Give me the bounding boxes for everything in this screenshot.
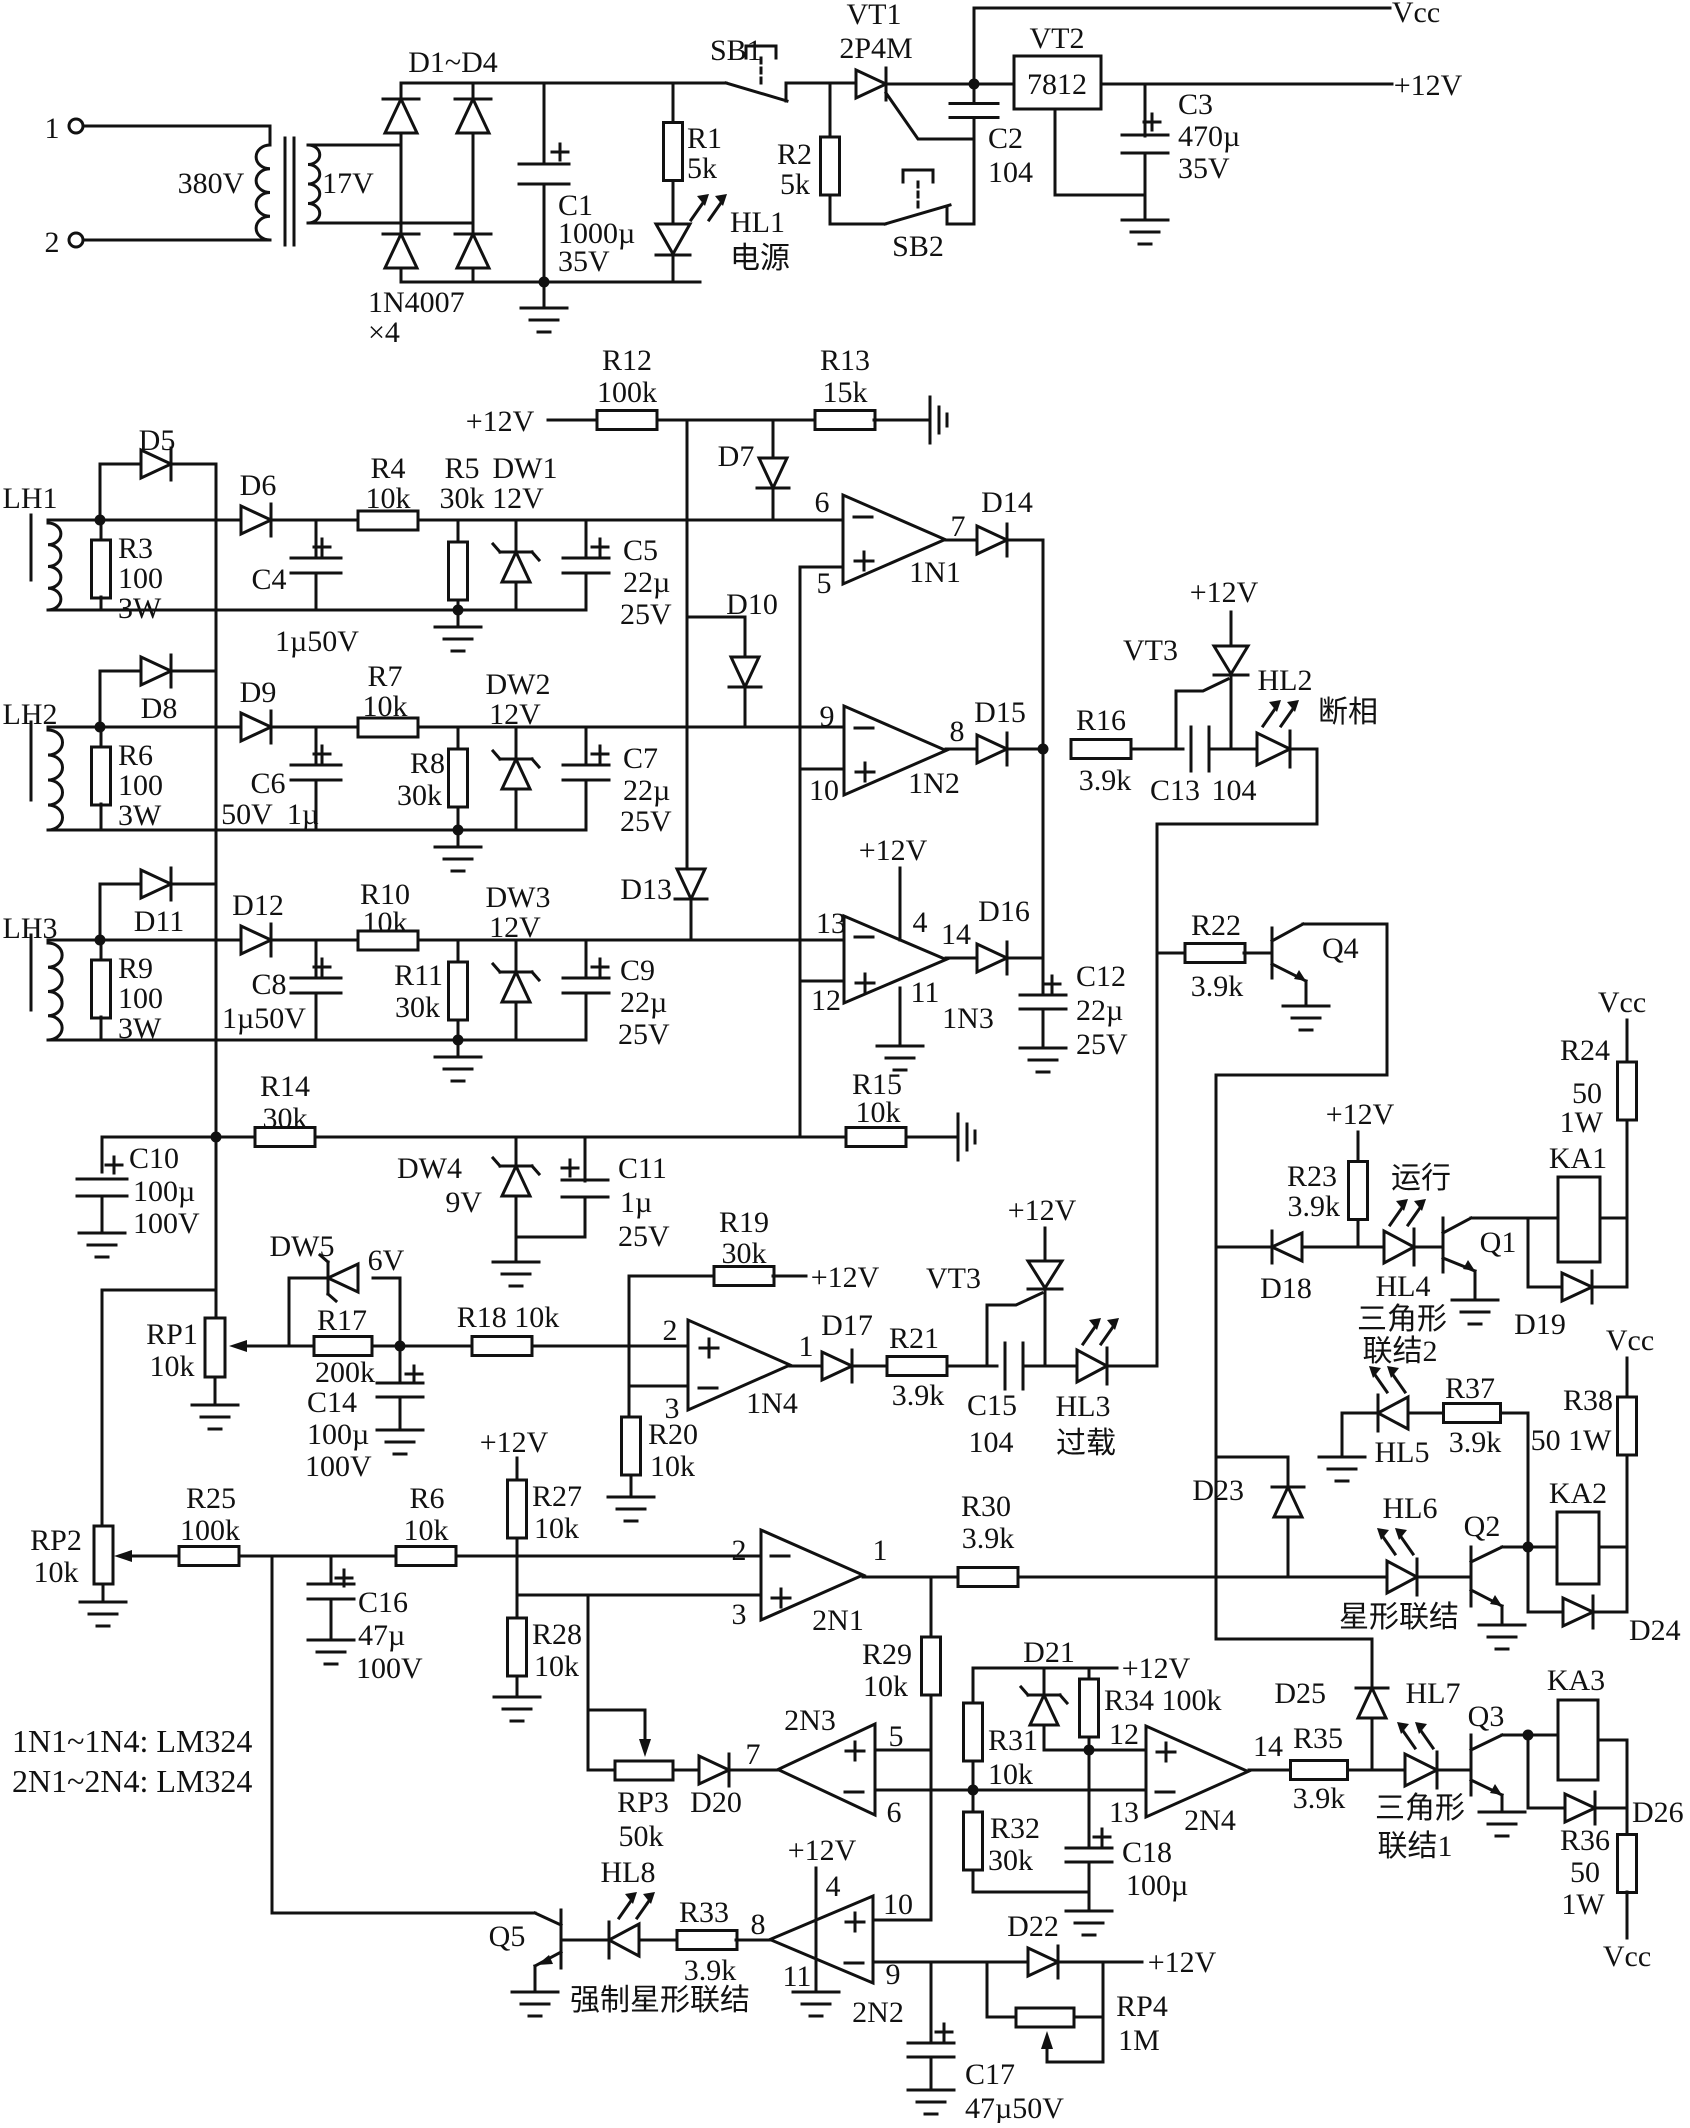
capacitor C7 22u xyxy=(563,765,609,780)
svg-text:SB1: SB1 xyxy=(710,34,762,67)
svg-text:6: 6 xyxy=(815,486,830,519)
ground HL5 xyxy=(1319,1457,1365,1481)
svg-text:1N4: 1N4 xyxy=(746,1387,798,1420)
wire Vcc rail xyxy=(974,7,1390,10)
svg-text:三角形: 三角形 xyxy=(1375,1792,1465,1825)
svg-text:断相: 断相 xyxy=(1318,696,1378,729)
capacitor C6 xyxy=(291,765,341,780)
wire to R22 xyxy=(1157,952,1186,955)
wire RP3 left xyxy=(588,1769,615,1772)
svg-text:LH1: LH1 xyxy=(3,482,58,515)
svg-text:R32: R32 xyxy=(990,1812,1040,1845)
svg-text:104: 104 xyxy=(969,1426,1014,1459)
op-amp 1N3 xyxy=(844,916,946,1003)
junction KA2 xyxy=(1523,1542,1534,1553)
wire R25 node down xyxy=(271,1556,274,1913)
plus C16 xyxy=(336,1570,352,1586)
wire Vcc to R24 xyxy=(1626,1020,1629,1062)
svg-text:C2: C2 xyxy=(988,122,1023,155)
wire LH2 top xyxy=(48,727,100,730)
wire R18 to 1N4 xyxy=(532,1345,688,1348)
svg-text:5: 5 xyxy=(889,1720,904,1753)
capacitor C11 1u xyxy=(562,1180,608,1197)
wire D15 to bus xyxy=(1007,748,1043,751)
svg-text:D7: D7 xyxy=(718,440,755,473)
transistor Q3 xyxy=(1471,1735,1502,1795)
wire C12 bottom xyxy=(1042,1009,1045,1048)
svg-text:12V: 12V xyxy=(489,911,541,944)
wire DW2 top xyxy=(515,727,518,759)
wire R23 bottom xyxy=(1357,1220,1360,1247)
node channel 3 input xyxy=(95,935,106,946)
wire to ground ch3 xyxy=(457,1040,460,1057)
terminal 2 xyxy=(69,233,83,247)
wire D13 bottom xyxy=(690,899,693,940)
diode D17 xyxy=(822,1350,852,1382)
resistor R21 xyxy=(887,1357,947,1376)
wire pin5 input xyxy=(800,566,843,569)
potentiometer RP3 xyxy=(615,1761,673,1780)
diode D20 xyxy=(699,1754,729,1786)
svg-text:R23: R23 xyxy=(1287,1160,1337,1193)
wire C1 bottom xyxy=(543,185,546,282)
svg-text:C14: C14 xyxy=(307,1386,357,1419)
wire R28 bottom xyxy=(516,1676,519,1697)
plus C11 xyxy=(562,1160,578,1176)
svg-text:+12V: +12V xyxy=(811,1261,880,1294)
svg-text:VT2: VT2 xyxy=(1030,22,1085,55)
wire 1N2 out xyxy=(946,748,977,751)
thyristor VT3 (overload) xyxy=(1028,1261,1062,1289)
svg-text:D10: D10 xyxy=(726,588,778,621)
wire C7 top xyxy=(585,727,588,765)
wire Q1 collector xyxy=(1471,1217,1558,1220)
wire C16 bottom xyxy=(330,1599,333,1640)
junction KA3 xyxy=(1523,1730,1534,1741)
transistor Q4 xyxy=(1272,924,1306,981)
wire +12V to R27 xyxy=(516,1458,519,1480)
wire pin6 row xyxy=(875,1789,1146,1792)
svg-text:R24: R24 xyxy=(1560,1034,1610,1067)
wire 7812 gnd xyxy=(1055,109,1145,195)
terminal 1 xyxy=(69,119,83,133)
LED HL6 xyxy=(1387,1559,1417,1595)
wire VT3 cathode xyxy=(1230,675,1233,749)
resistor R1 xyxy=(664,123,683,181)
rays HL5 xyxy=(1369,1366,1405,1392)
svg-text:R25: R25 xyxy=(186,1482,236,1515)
svg-text:+12V: +12V xyxy=(859,834,928,867)
wire HL4 to Q1 xyxy=(1414,1246,1443,1249)
capacitor C12 22u xyxy=(1020,995,1066,1009)
wire VT3 gate xyxy=(1176,679,1228,749)
LED HL3 xyxy=(1077,1348,1107,1384)
svg-text:D19: D19 xyxy=(1514,1308,1566,1341)
svg-text:100V: 100V xyxy=(305,1450,372,1483)
ground C12 xyxy=(1020,1048,1066,1072)
wire DW4-C11 xyxy=(516,1236,585,1239)
wire terminal1 to primary xyxy=(83,126,270,145)
svg-text:15k: 15k xyxy=(823,376,868,409)
svg-text:电源: 电源 xyxy=(730,242,790,275)
node channel 3 divider xyxy=(453,1035,464,1046)
ground R28 xyxy=(494,1697,540,1721)
svg-text:13: 13 xyxy=(816,907,846,940)
diode D14 xyxy=(977,524,1007,556)
wire pin12 row xyxy=(1044,1749,1146,1752)
rays HL6 xyxy=(1377,1528,1413,1554)
resistor R35 xyxy=(1291,1761,1348,1780)
svg-text:C18: C18 xyxy=(1122,1836,1172,1869)
current transformer LH1 winding xyxy=(30,515,33,580)
wire RP4 wiper return xyxy=(1047,1962,1103,2062)
svg-text:+12V: +12V xyxy=(1148,1946,1217,1979)
svg-text:1µ: 1µ xyxy=(620,1186,652,1219)
diode D15 xyxy=(977,733,1007,765)
wire pin3 node to RP3 xyxy=(587,1595,590,1770)
svg-text:6V: 6V xyxy=(368,1244,405,1277)
capacitor C5 22u xyxy=(563,558,609,573)
diode D7 xyxy=(757,458,789,488)
svg-text:HL3: HL3 xyxy=(1056,1390,1111,1423)
capacitor C14 100u xyxy=(377,1383,423,1397)
wire C13 to HL2 xyxy=(1209,748,1257,751)
svg-text:C3: C3 xyxy=(1178,88,1213,121)
svg-text:D24: D24 xyxy=(1629,1614,1681,1647)
svg-text:KA3: KA3 xyxy=(1547,1664,1605,1697)
wire D18 to HL4 xyxy=(1302,1246,1384,1249)
svg-text:35V: 35V xyxy=(558,245,610,278)
svg-text:联结1: 联结1 xyxy=(1378,1830,1453,1863)
svg-text:1: 1 xyxy=(873,1534,888,1567)
svg-text:C12: C12 xyxy=(1076,960,1126,993)
plus C14 xyxy=(406,1366,422,1382)
ground C14 xyxy=(377,1430,423,1454)
wire R29 to pin10 xyxy=(930,1697,933,1920)
RP4 wiper arrow xyxy=(1041,2031,1053,2062)
wire R2 to SB2 xyxy=(830,195,885,224)
wire C17 bottom xyxy=(930,2057,933,2090)
diode D5 xyxy=(141,448,171,480)
svg-text:强制星形联结: 强制星形联结 xyxy=(570,1984,750,2017)
svg-text:HL6: HL6 xyxy=(1383,1492,1438,1525)
wire to ground xyxy=(543,282,546,308)
wire R11 bottom xyxy=(457,1020,460,1040)
svg-text:KA1: KA1 xyxy=(1549,1142,1607,1175)
resistor R6 100 3W xyxy=(92,747,111,805)
op-amp 1N1 xyxy=(843,495,945,584)
resistor R37 xyxy=(1444,1404,1501,1423)
svg-text:10: 10 xyxy=(883,1888,913,1921)
resistor R30 xyxy=(958,1568,1018,1587)
wire secondary bottom to bridge xyxy=(308,222,473,225)
svg-text:RP2: RP2 xyxy=(30,1524,82,1557)
wire R31 bottom xyxy=(972,1761,975,1790)
wire C9 top xyxy=(585,940,588,978)
svg-text:HL2: HL2 xyxy=(1258,664,1313,697)
svg-text:100V: 100V xyxy=(133,1207,200,1240)
svg-text:13: 13 xyxy=(1109,1796,1139,1829)
resistor R22 xyxy=(1185,944,1245,963)
transistor Q5 xyxy=(535,1910,561,1968)
transformer T1 primary winding xyxy=(256,145,270,240)
wire C3 bottom xyxy=(1144,153,1147,220)
svg-text:+12V: +12V xyxy=(1122,1652,1191,1685)
wire R8 bottom xyxy=(457,807,460,830)
resistor R2 xyxy=(821,137,840,195)
wire to R36 xyxy=(1626,1740,1629,1835)
wire DW4 top xyxy=(515,1137,518,1166)
node channel 1 divider xyxy=(453,605,464,616)
wire bridge left rail xyxy=(400,83,403,282)
svg-text:R8: R8 xyxy=(410,747,445,780)
wire D21 bottom xyxy=(1043,1725,1046,1750)
resistor R7 10k xyxy=(358,718,418,737)
wire down to RP2 xyxy=(101,1290,104,1526)
wire secondary top to bridge xyxy=(308,144,401,147)
wire KA1 right xyxy=(1600,1217,1627,1220)
svg-text:3.9k: 3.9k xyxy=(1079,764,1132,797)
svg-text:100: 100 xyxy=(118,562,163,595)
svg-text:Vcc: Vcc xyxy=(1392,0,1440,29)
svg-text:10k: 10k xyxy=(34,1556,79,1589)
wire pin3 2N1 xyxy=(517,1594,761,1597)
wire HL5 gnd stem xyxy=(1341,1413,1344,1457)
resistor R15 xyxy=(846,1128,906,1147)
LED HL1 xyxy=(656,224,690,255)
wire C1 top xyxy=(543,83,546,164)
wire to RP3 wiper xyxy=(588,1709,645,1712)
svg-text:D14: D14 xyxy=(981,486,1033,519)
wire R22 to Q4 xyxy=(1244,952,1272,955)
LED HL5 xyxy=(1378,1395,1408,1431)
wire +12V to VT3 xyxy=(1230,612,1233,646)
diode D25 xyxy=(1356,1688,1388,1718)
wire D19 right xyxy=(1592,1286,1627,1289)
ground Q3 xyxy=(1479,1812,1525,1836)
wire D10 bottom xyxy=(744,687,747,727)
svg-text:25V: 25V xyxy=(620,805,672,838)
wire +12V to R23 xyxy=(1357,1132,1360,1161)
capacitor C17 47u xyxy=(908,2043,954,2057)
ground channel 2 xyxy=(435,847,481,871)
svg-text:200k: 200k xyxy=(315,1356,375,1389)
wire 2N1 out to R29 xyxy=(930,1577,933,1637)
wire C4 top xyxy=(315,520,318,558)
svg-text:10k: 10k xyxy=(363,690,408,723)
svg-text:100: 100 xyxy=(118,982,163,1015)
wire DW4 bottom xyxy=(515,1196,518,1262)
wire to D18 xyxy=(1216,1246,1272,1249)
svg-text:C15: C15 xyxy=(967,1389,1017,1422)
wire channel 1 bottom line xyxy=(48,609,586,612)
transformer T1 secondary winding xyxy=(308,145,320,223)
wire 1N3 out xyxy=(946,957,977,960)
wire pin3 input xyxy=(629,1385,688,1388)
wire 2N1 out xyxy=(863,1576,960,1579)
wire R20 bottom xyxy=(630,1475,633,1497)
LED HL7 xyxy=(1405,1752,1437,1788)
wire R37 to Q2 node xyxy=(1501,1413,1528,1547)
svg-text:三角形: 三角形 xyxy=(1357,1303,1447,1336)
wire Q2 collector xyxy=(1502,1546,1557,1549)
svg-text:R7: R7 xyxy=(367,660,402,693)
op-amp 2N4 xyxy=(1146,1726,1248,1817)
plus C6 xyxy=(314,746,330,762)
plus C5 xyxy=(592,539,608,555)
ground Q2 xyxy=(1479,1625,1525,1649)
svg-text:10k: 10k xyxy=(863,1670,908,1703)
svg-text:C10: C10 xyxy=(129,1142,179,1175)
resistor R27 xyxy=(508,1480,527,1538)
svg-text:100V: 100V xyxy=(356,1652,423,1685)
svg-text:C4: C4 xyxy=(251,563,286,596)
plus C3 xyxy=(1144,114,1160,130)
plus C4 xyxy=(314,539,330,555)
svg-text:HL1: HL1 xyxy=(730,206,785,239)
wire R12 to R13 xyxy=(657,419,816,422)
node channel 1 input xyxy=(95,515,106,526)
svg-text:R16: R16 xyxy=(1076,704,1126,737)
svg-text:R13: R13 xyxy=(820,344,870,377)
svg-text:10k: 10k xyxy=(363,906,408,939)
svg-text:VT3: VT3 xyxy=(926,1262,981,1295)
diode D23 xyxy=(1272,1487,1304,1517)
resistor R10 10k xyxy=(358,931,418,950)
resistor R8 30k xyxy=(449,749,468,807)
wire LH1 top xyxy=(48,520,100,523)
svg-text:104: 104 xyxy=(1212,774,1257,807)
diode D13 xyxy=(675,869,707,899)
wire Q4 collector bus xyxy=(1216,924,1387,1639)
resistor R11 30k xyxy=(449,962,468,1020)
wire D25 bottom xyxy=(1371,1718,1374,1770)
svg-text:6: 6 xyxy=(887,1796,902,1829)
wire R34 bottom xyxy=(1088,1737,1091,1750)
svg-text:9V: 9V xyxy=(445,1186,482,1219)
resistor R14 xyxy=(255,1128,315,1147)
wire pin10 input xyxy=(800,768,844,771)
svg-text:3: 3 xyxy=(665,1392,680,1425)
wire RP4 left xyxy=(987,1962,1016,2017)
wire D21 top xyxy=(1043,1668,1046,1695)
svg-text:2N1: 2N1 xyxy=(812,1604,864,1637)
relay KA1 xyxy=(1558,1177,1600,1262)
thyristor VT1 xyxy=(856,68,886,100)
ground Q5 xyxy=(512,1992,558,2016)
svg-text:D21: D21 xyxy=(1023,1636,1075,1669)
svg-text:R11: R11 xyxy=(394,959,443,992)
svg-text:3W: 3W xyxy=(118,1012,162,1045)
capacitor C8 xyxy=(291,978,341,993)
wire C6 bottom xyxy=(315,780,318,830)
wire C18 bottom xyxy=(1088,1862,1091,1911)
svg-text:R3: R3 xyxy=(118,532,153,565)
svg-text:D15: D15 xyxy=(974,696,1026,729)
ground R20 xyxy=(608,1497,654,1521)
ground C10 xyxy=(79,1233,125,1257)
junction C1 bottom xyxy=(539,277,550,288)
svg-text:470µ: 470µ xyxy=(1178,120,1240,153)
diode D10 xyxy=(729,657,761,687)
junction C14 xyxy=(395,1341,406,1352)
svg-text:1µ50V: 1µ50V xyxy=(222,1002,306,1035)
resistor R13 xyxy=(815,411,875,430)
resistor R24 xyxy=(1618,1062,1637,1120)
wire pin5 to R29 xyxy=(875,1749,931,1752)
potentiometer RP1 xyxy=(205,1318,225,1377)
svg-text:D5: D5 xyxy=(139,424,176,457)
svg-text:50k: 50k xyxy=(619,1820,664,1853)
svg-text:12V: 12V xyxy=(489,698,541,731)
svg-text:R33: R33 xyxy=(679,1896,729,1929)
wire DW1 bottom xyxy=(515,582,518,610)
svg-text:+12V: +12V xyxy=(1008,1194,1077,1227)
wire C5 top xyxy=(585,520,588,558)
wire D14 to bus xyxy=(1007,539,1043,542)
wire C8 bottom xyxy=(315,993,318,1040)
svg-text:12: 12 xyxy=(811,984,841,1017)
svg-text:R29: R29 xyxy=(862,1638,912,1671)
svg-text:35V: 35V xyxy=(1178,152,1230,185)
wire D25 top xyxy=(1371,1639,1374,1688)
svg-text:R34 100k: R34 100k xyxy=(1104,1684,1222,1717)
wire to D24 xyxy=(1528,1547,1561,1612)
wire R13 to ground xyxy=(874,419,930,422)
svg-text:C5: C5 xyxy=(623,534,658,567)
RP2 potentiometer xyxy=(94,1526,113,1584)
svg-text:R21: R21 xyxy=(889,1322,939,1355)
svg-text:3.9k: 3.9k xyxy=(892,1379,945,1412)
wire bus to D10 xyxy=(687,420,745,617)
svg-text:DW1: DW1 xyxy=(493,452,558,485)
wire RP3 to D20 xyxy=(673,1769,701,1772)
wire to R11 xyxy=(457,940,460,963)
wire 2N2 power xyxy=(815,1868,818,1992)
zener DW1 12V xyxy=(493,544,539,582)
svg-text:8: 8 xyxy=(950,715,965,748)
svg-text:联结2: 联结2 xyxy=(1363,1335,1438,1368)
svg-text:R5: R5 xyxy=(444,452,479,485)
wire Q4 bus to D25 xyxy=(1216,1638,1372,1641)
diode D11 xyxy=(141,868,171,900)
ground R13 xyxy=(930,397,947,443)
svg-text:22µ: 22µ xyxy=(1076,994,1123,1027)
wire R19-R20 vertical xyxy=(628,1276,631,1417)
svg-text:3.9k: 3.9k xyxy=(962,1522,1015,1555)
regulator VT2 7812 xyxy=(1014,56,1101,109)
svg-text:30k: 30k xyxy=(988,1844,1033,1877)
wire C4 bottom xyxy=(315,573,318,610)
svg-text:10k: 10k xyxy=(650,1450,695,1483)
wire C3 top xyxy=(1144,84,1147,136)
svg-text:HL4: HL4 xyxy=(1376,1270,1431,1303)
plus C12 xyxy=(1044,976,1060,992)
wire to R8 xyxy=(457,727,460,750)
svg-text:R6: R6 xyxy=(409,1482,444,1515)
wire R9 bottom xyxy=(100,1017,103,1040)
svg-text:+12V: +12V xyxy=(480,1426,549,1459)
wire Q1 emitter xyxy=(1474,1271,1477,1300)
wire +12V row 2N4 xyxy=(973,1667,1117,1670)
svg-text:R9: R9 xyxy=(118,952,153,985)
wire D24 right xyxy=(1593,1611,1627,1614)
svg-text:1N3: 1N3 xyxy=(942,1002,994,1035)
svg-text:11: 11 xyxy=(911,976,940,1009)
svg-text:11: 11 xyxy=(783,1960,812,1993)
svg-text:过载: 过载 xyxy=(1056,1427,1116,1460)
wire HL2 return xyxy=(1157,749,1317,1366)
